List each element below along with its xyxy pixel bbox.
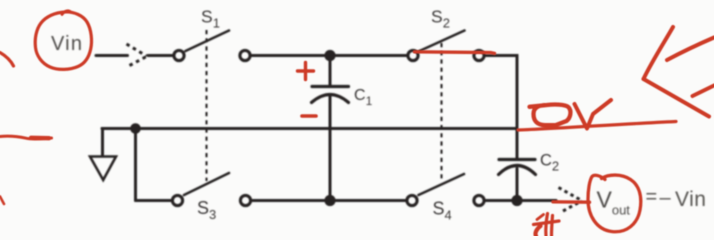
annotation: red stroke at top-left edge: [0, 53, 14, 67]
junction: ground tap on middle rail: [130, 123, 141, 134]
capacitor C1: [312, 58, 349, 198]
wire: output lead: [517, 199, 556, 202]
annotation: red 0V text: [530, 100, 612, 129]
annotation: red scribble at top-right (stroke b): [644, 79, 710, 117]
wire: Vin lead to input arrow: [96, 54, 128, 57]
annotation: red minus sign at C1 bottom plate: [302, 114, 316, 118]
wire: bottom rail left segment to S3: [136, 199, 172, 202]
ground symbol: [90, 129, 136, 181]
node Vin input (dashed arrowhead): [127, 44, 147, 66]
svg-text:–: –: [660, 187, 672, 209]
switch S3 (contacts and lever): [172, 173, 250, 206]
switch S1 (contacts and lever): [174, 31, 250, 61]
annotation: red plus sign at C1 top plate: [298, 63, 314, 80]
switch S2 phase dashed line: [440, 43, 442, 181]
annotation: red wavy line at left edge (middle): [0, 136, 52, 139]
switch S1 phase dashed line: [205, 30, 207, 181]
wire: middle ground rail: [102, 127, 517, 130]
annotation: red circle around Vin: [35, 12, 91, 69]
annotation: red circle around Vout: [588, 175, 641, 232]
switch S4 (contacts and lever): [407, 174, 484, 206]
annotation: red scribble at top-right (stroke a): [644, 27, 674, 79]
junction: bottom of C2 / output node: [511, 195, 522, 206]
annotation: red line drawn across S2: [415, 52, 495, 54]
wire: S4 right contact to output bottom node: [485, 199, 517, 202]
annotation: red lead-in line to Vout circle: [553, 200, 590, 204]
svg-text:Vin: Vin: [51, 33, 83, 55]
wire: S2 right contact to right corner and down to output node: [485, 56, 517, 129]
annotation: red scribble mark below output arrow: [534, 214, 560, 237]
junction: bottom plate of C1 on bottom rail: [324, 195, 335, 206]
node Vout output (dashed arrowhead): [559, 188, 582, 212]
svg-text:=: =: [646, 186, 658, 208]
capacitor C2: [499, 129, 536, 199]
annotation: red scribble at top-right (stroke c): [667, 38, 714, 61]
wire: input arrow to switch S1: [148, 54, 173, 57]
switch S2 (contacts and lever): [408, 31, 484, 61]
annotation: red scribble at top-right (stroke d): [693, 86, 714, 97]
wire: bottom rail S3 to S4: [252, 199, 407, 202]
annotation: small red tick at bottom-left edge: [0, 197, 4, 205]
junction: top plate of C1 on top rail: [324, 50, 335, 61]
annotation: red underline from output node through 0V: [518, 122, 676, 131]
wire: ground tap down to bottom rail: [134, 129, 137, 201]
svg-text:Vin: Vin: [675, 188, 706, 211]
wire: top rail S1 to S2: [251, 54, 407, 57]
